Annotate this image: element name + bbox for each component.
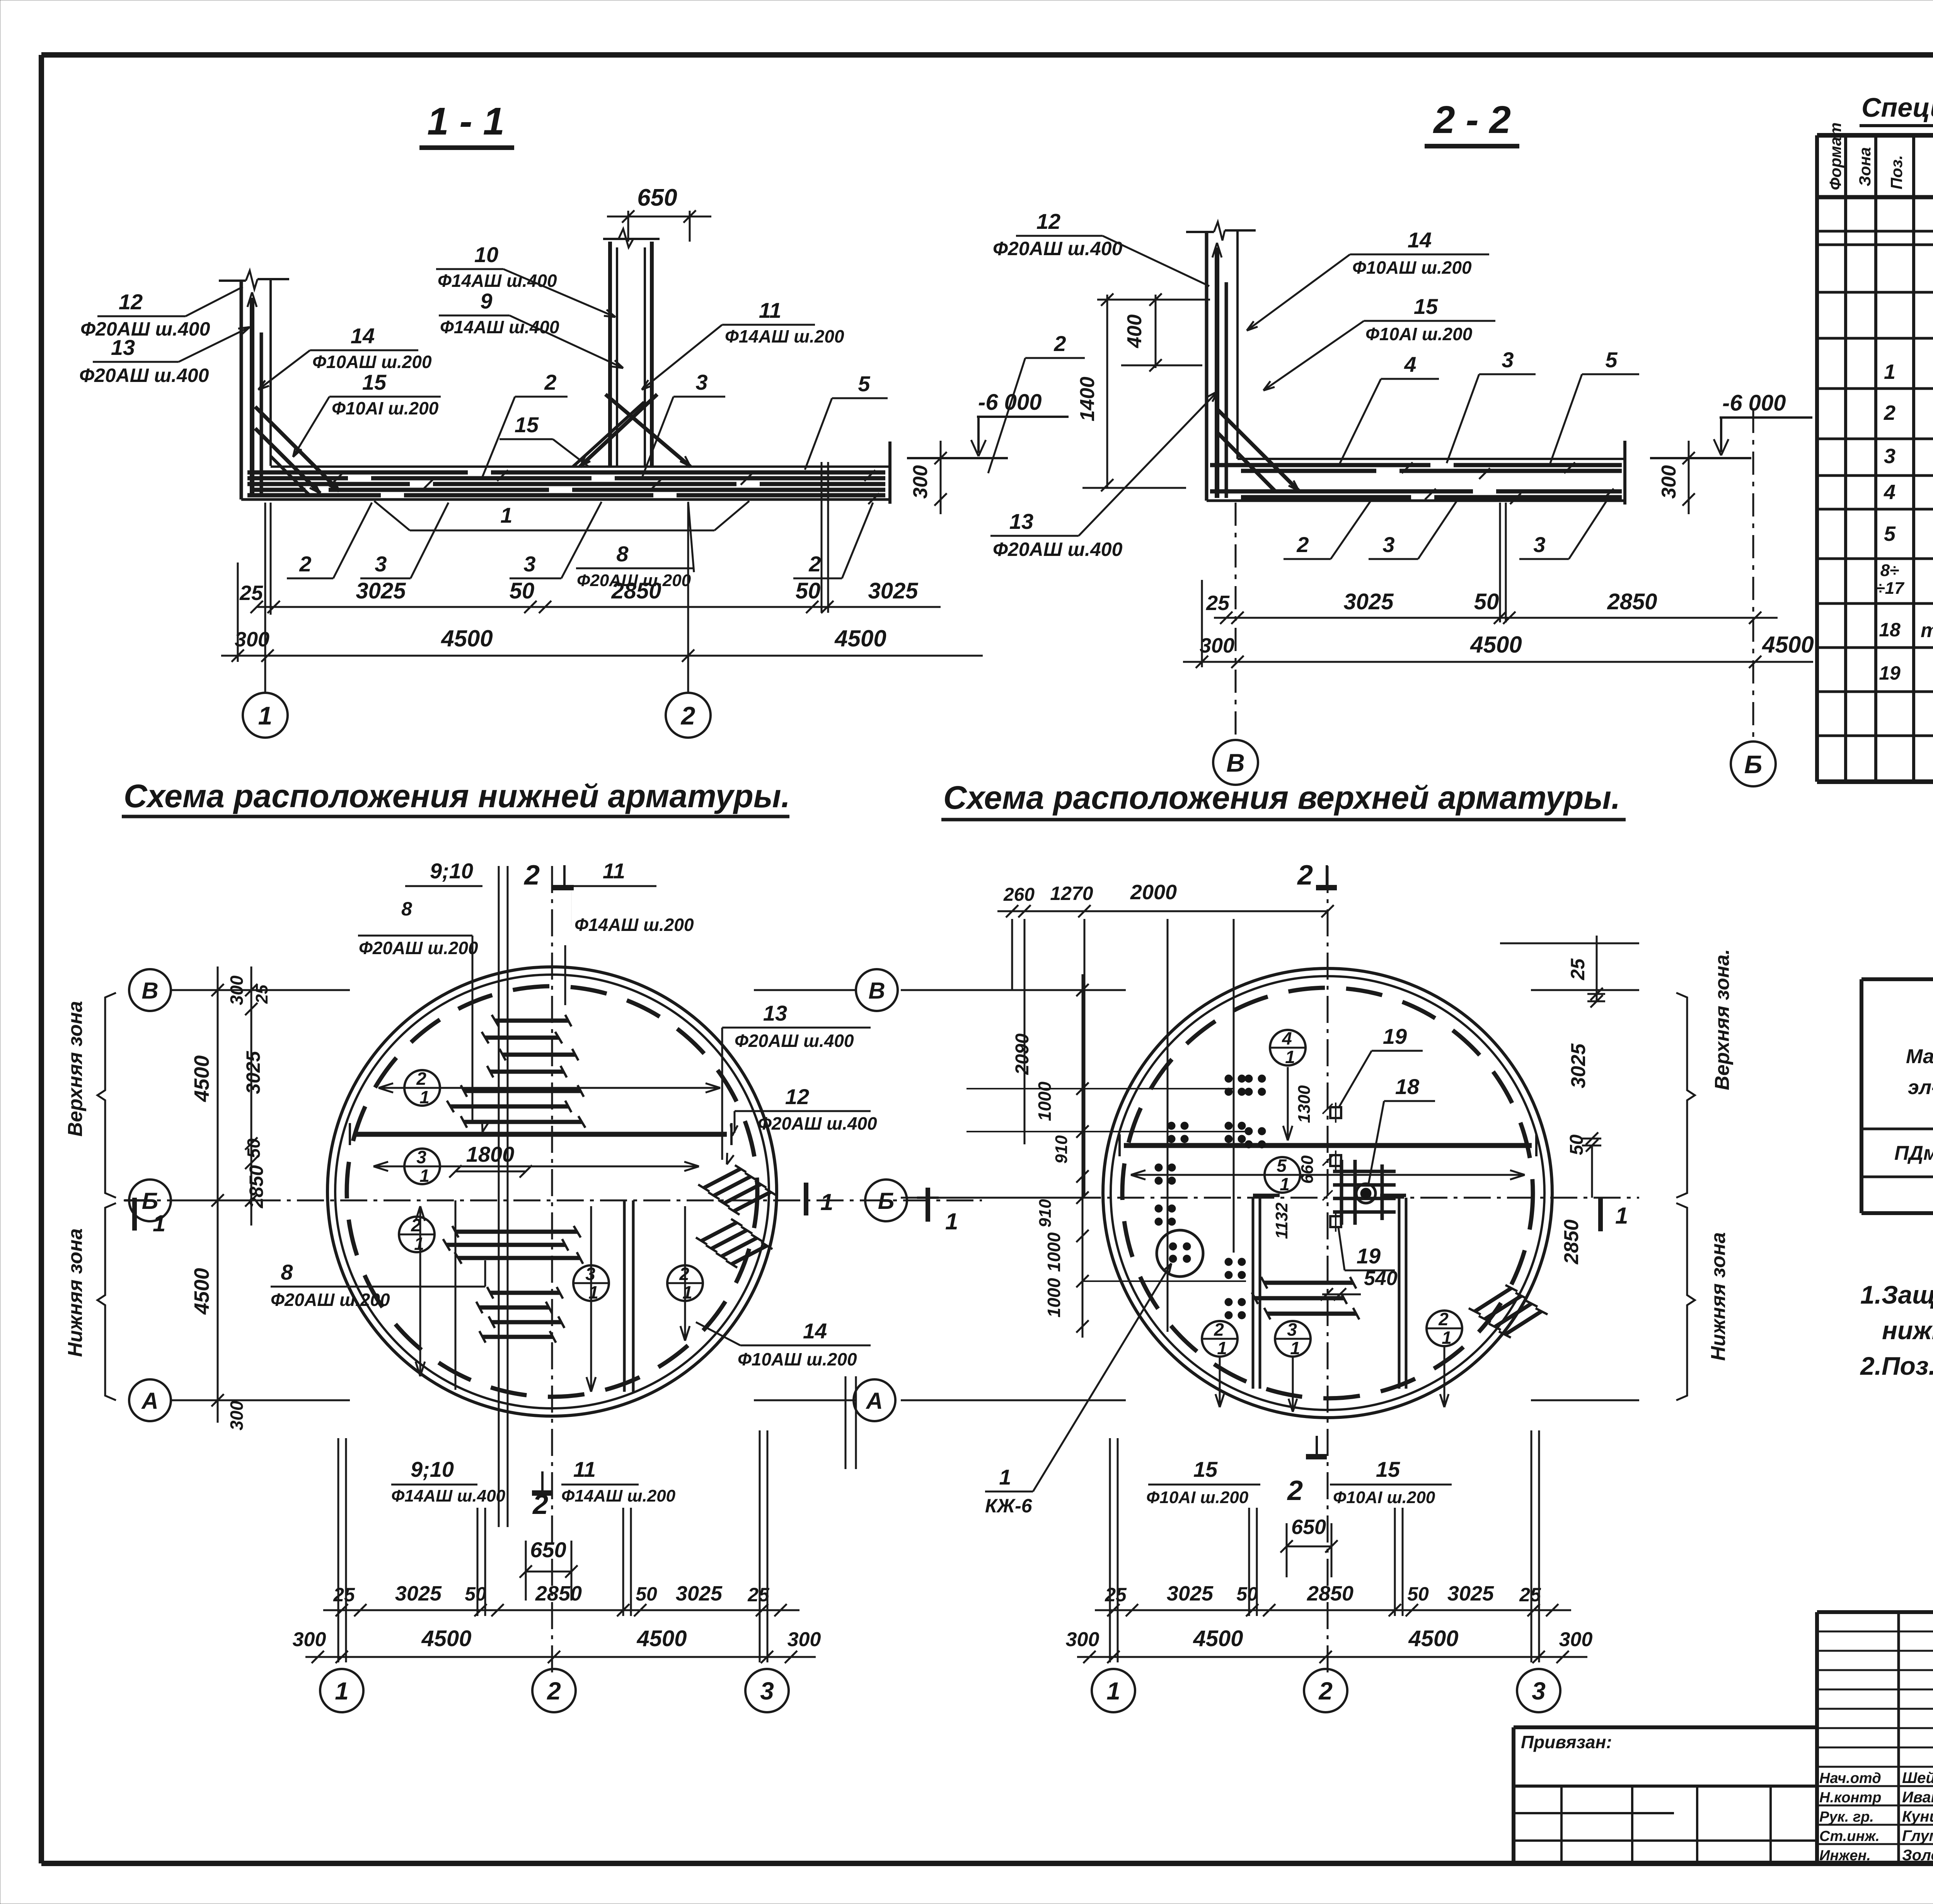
section 2-2 drawing <box>1186 222 1625 505</box>
svg-text:Ф10АШ ш.200: Ф10АШ ш.200 <box>738 1349 857 1369</box>
section 1-1 right 300 dim <box>909 441 947 514</box>
section 1-1 axis bubble 2 <box>666 693 711 738</box>
svg-text:4: 4 <box>1404 352 1416 377</box>
svg-text:2.Поз. „18” только для мокр: 2.Поз. „18” только для мокрых грунтов. <box>1860 1352 1933 1380</box>
svg-text:25: 25 <box>252 985 271 1004</box>
svg-text:50: 50 <box>1474 589 1499 614</box>
svg-text:8: 8 <box>616 542 629 566</box>
svg-text:2850: 2850 <box>1607 589 1657 614</box>
right plan left dim chain 2090 1000 910 <box>906 974 1249 1338</box>
svg-text:300: 300 <box>1658 465 1680 499</box>
svg-text:Ф10АШ ш.200: Ф10АШ ш.200 <box>1352 257 1472 278</box>
svg-text:13: 13 <box>763 1001 787 1025</box>
section 2-2 dim 400 1400 <box>1076 293 1210 491</box>
svg-text:50: 50 <box>465 1583 486 1605</box>
svg-text:400: 400 <box>1123 314 1146 348</box>
svg-text:300: 300 <box>909 465 932 499</box>
svg-text:300: 300 <box>788 1628 821 1651</box>
svg-text:Верхняя зона: Верхняя зона <box>64 1001 87 1137</box>
svg-text:4500: 4500 <box>636 1626 687 1651</box>
left plan bottom labels <box>391 1457 676 1520</box>
right plan zone braces right <box>1676 949 1734 1400</box>
svg-text:Ф20АШ ш.200: Ф20АШ ш.200 <box>271 1290 390 1310</box>
svg-text:Нижняя зона: Нижняя зона <box>64 1228 87 1357</box>
svg-text:2: 2 <box>1053 331 1066 356</box>
svg-text:15: 15 <box>1193 1457 1218 1481</box>
right plan embedded item 18 detail <box>1333 1160 1396 1225</box>
svg-text:Схема расположения верхней арм: Схема расположения верхней арматуры. <box>943 779 1620 816</box>
svg-text:12: 12 <box>1036 209 1060 234</box>
svg-text:Формат: Формат <box>1826 123 1844 190</box>
section 2-2 axis lines and bubbles <box>1202 410 1753 741</box>
specification table title <box>1860 92 1933 126</box>
left plan axis bubbles 1 2 3 <box>320 1669 363 1712</box>
section 1-1 mid labels 2 15 3 5 2 <box>482 331 1085 479</box>
right plan axis bubbles 1 2 3 <box>1092 1669 1135 1712</box>
svg-text:Ф10АШ ш.200: Ф10АШ ш.200 <box>312 352 432 372</box>
svg-text:3: 3 <box>1533 532 1545 557</box>
svg-text:12: 12 <box>785 1084 809 1109</box>
svg-text:3: 3 <box>375 552 387 576</box>
section 1-1 labels 10 9 11 <box>436 242 844 390</box>
svg-text:300: 300 <box>1200 634 1234 657</box>
svg-text:1: 1 <box>945 1209 958 1234</box>
section 2-2 dimension chain 25 3025 50 2850 <box>1206 589 1778 624</box>
svg-text:4500: 4500 <box>1470 632 1522 658</box>
svg-text:8÷: 8÷ <box>1880 561 1899 580</box>
svg-text:2850: 2850 <box>1307 1582 1353 1605</box>
section 2-2 heading <box>1425 98 1519 146</box>
svg-text:3025: 3025 <box>356 578 406 603</box>
svg-text:4500: 4500 <box>421 1626 471 1651</box>
left plan section-1 cut marks <box>124 1183 833 1236</box>
svg-text:Ф20АШ ш.400: Ф20АШ ш.400 <box>79 365 209 386</box>
left plan bar 12 horizontal <box>350 1123 731 1145</box>
svg-text:Инжен.: Инжен. <box>1819 1848 1871 1864</box>
svg-text:9;10: 9;10 <box>411 1457 454 1481</box>
section 1-1 heading <box>419 100 514 148</box>
section 2-2 labels 14 15 4 3 5 <box>1247 228 1639 464</box>
right plan bottom labels 15 2 15 650 <box>1146 1457 1452 1577</box>
section 2-2 labels 12 13 <box>990 209 1218 560</box>
svg-text:650: 650 <box>637 184 677 211</box>
svg-text:540: 540 <box>1364 1267 1398 1290</box>
svg-text:3: 3 <box>1532 1677 1546 1705</box>
svg-text:1: 1 <box>419 1087 430 1107</box>
svg-text:19: 19 <box>1879 662 1901 684</box>
svg-text:11: 11 <box>603 859 625 883</box>
svg-text:11: 11 <box>573 1457 596 1481</box>
svg-text:1: 1 <box>588 1282 598 1302</box>
svg-text:Рук. гр.: Рук. гр. <box>1819 1809 1874 1825</box>
section 2-2 bottom labels 2 3 3 <box>1284 499 1607 559</box>
section 1-1 drawing <box>219 184 1008 504</box>
svg-text:Зона: Зона <box>1856 147 1874 186</box>
svg-text:25: 25 <box>747 1584 770 1606</box>
svg-text:12: 12 <box>119 290 143 314</box>
svg-text:3025: 3025 <box>868 578 918 603</box>
svg-text:14: 14 <box>351 324 375 348</box>
right plan right dim chain 25 3025 50 2850 <box>1500 936 1639 1265</box>
svg-text:3: 3 <box>1287 1319 1297 1340</box>
svg-text:25: 25 <box>1206 591 1230 615</box>
svg-text:18: 18 <box>1879 619 1901 641</box>
svg-text:4500: 4500 <box>190 1268 213 1315</box>
svg-text:1300: 1300 <box>1295 1085 1314 1123</box>
svg-text:4500: 4500 <box>1762 632 1814 658</box>
section 1-1 labels 14 15 <box>258 324 441 457</box>
svg-text:13: 13 <box>1009 509 1033 534</box>
svg-text:2: 2 <box>1297 860 1313 891</box>
svg-text:650: 650 <box>530 1538 566 1562</box>
svg-text:25: 25 <box>1105 1584 1127 1606</box>
svg-text:3: 3 <box>1502 348 1514 372</box>
svg-text:1: 1 <box>153 1210 165 1236</box>
right plan title <box>941 779 1626 820</box>
svg-text:Ф20АШ ш.400: Ф20АШ ш.400 <box>993 539 1123 560</box>
svg-text:3: 3 <box>760 1677 774 1705</box>
svg-text:Ф10АI ш.200: Ф10АI ш.200 <box>1365 324 1473 344</box>
svg-text:2850: 2850 <box>535 1582 582 1605</box>
svg-text:50: 50 <box>510 578 535 603</box>
svg-text:3025: 3025 <box>242 1051 264 1094</box>
svg-text:3: 3 <box>1382 532 1394 557</box>
left plan title <box>122 778 790 816</box>
svg-text:300: 300 <box>227 975 247 1005</box>
svg-text:1: 1 <box>1884 360 1895 384</box>
left plan bar group below center <box>443 1226 583 1264</box>
svg-text:2: 2 <box>1214 1319 1224 1340</box>
svg-text:Ф20АШ ш.400: Ф20АШ ш.400 <box>993 238 1123 259</box>
svg-text:2: 2 <box>1438 1309 1449 1329</box>
svg-text:3: 3 <box>523 552 535 576</box>
section 1-1 dimension chain 300 4500 4500 <box>221 626 983 662</box>
right plan rebar section dot clusters <box>1155 1075 1266 1319</box>
svg-text:Ф20АШ ш.200: Ф20АШ ш.200 <box>359 938 478 958</box>
svg-text:Схема расположения нижней арма: Схема расположения нижней арматуры. <box>124 778 790 814</box>
svg-text:2: 2 <box>808 552 821 576</box>
section 1-1 bottom labels 2 3 3 8 2 <box>287 502 873 590</box>
right plan right diagonal bars <box>1469 1285 1548 1338</box>
svg-text:2850: 2850 <box>245 1165 267 1209</box>
svg-text:В: В <box>141 978 158 1004</box>
svg-text:25: 25 <box>1519 1584 1541 1606</box>
right plan span arrow line <box>1131 1067 1525 1412</box>
svg-text:2: 2 <box>1296 532 1309 557</box>
svg-text:3: 3 <box>1884 445 1895 468</box>
svg-text:Ф14АШ ш.400: Ф14АШ ш.400 <box>440 317 559 337</box>
svg-text:Глуменко: Глуменко <box>1902 1827 1933 1844</box>
svg-text:В: В <box>1226 748 1245 777</box>
svg-text:Ф20АШ ш.400: Ф20АШ ш.400 <box>80 318 210 340</box>
left plan axis lines <box>124 866 982 1674</box>
left plan fraction bubbles <box>404 1070 440 1106</box>
svg-text:Ф20АШ ш.400: Ф20АШ ш.400 <box>735 1031 854 1051</box>
svg-text:15: 15 <box>515 413 539 437</box>
svg-text:1 - 1: 1 - 1 <box>427 100 505 143</box>
svg-text:18: 18 <box>1395 1074 1420 1099</box>
svg-text:2: 2 <box>680 701 695 730</box>
svg-text:1: 1 <box>414 1234 424 1254</box>
svg-text:Марка: Марка <box>1906 1045 1933 1068</box>
svg-text:4500: 4500 <box>1193 1626 1243 1651</box>
svg-text:1: 1 <box>1280 1174 1290 1194</box>
svg-text:1: 1 <box>258 701 273 730</box>
svg-text:2: 2 <box>1318 1677 1333 1705</box>
svg-text:А: А <box>865 1388 883 1414</box>
svg-text:Б: Б <box>1744 750 1763 779</box>
section 2-2 right 300 dim <box>1658 441 1695 514</box>
svg-text:1270: 1270 <box>1050 883 1093 904</box>
svg-text:1000: 1000 <box>1044 1278 1064 1318</box>
specification table header texts <box>1826 123 1933 190</box>
svg-text:1: 1 <box>1442 1328 1452 1348</box>
svg-text:1: 1 <box>500 503 512 527</box>
right plan section-1 cut marks <box>917 1188 1628 1234</box>
svg-text:4: 4 <box>1282 1028 1292 1048</box>
svg-text:50: 50 <box>1407 1583 1429 1605</box>
svg-text:14: 14 <box>1408 228 1432 252</box>
svg-text:1: 1 <box>335 1677 349 1705</box>
svg-text:Ф14АШ ш.400: Ф14АШ ш.400 <box>391 1486 506 1505</box>
right plan KZh-6 detail circle pos1 <box>1157 1230 1203 1277</box>
svg-text:9;10: 9;10 <box>430 859 473 883</box>
section 1-1 left labels 12 13 <box>79 287 250 386</box>
svg-text:2: 2 <box>1287 1475 1303 1506</box>
svg-text:Нижняя зона: Нижняя зона <box>1707 1232 1730 1361</box>
svg-text:Ф10АI ш.200: Ф10АI ш.200 <box>1333 1488 1435 1507</box>
left plan span arrows <box>373 1083 720 1392</box>
svg-text:50: 50 <box>244 1138 264 1158</box>
svg-text:Кунцевич: Кунцевич <box>1902 1808 1933 1825</box>
svg-text:2: 2 <box>411 1215 421 1235</box>
svg-text:2850: 2850 <box>611 578 661 603</box>
right plan labels 19 18 19 540 <box>1272 1024 1435 1301</box>
right plan central bar group with hooks <box>1252 1277 1359 1319</box>
svg-text:КЖ-6: КЖ-6 <box>985 1495 1033 1517</box>
svg-text:910: 910 <box>1052 1135 1071 1164</box>
left plan bar group below 2-1 <box>447 1085 585 1128</box>
svg-text:3025: 3025 <box>1343 589 1394 614</box>
svg-text:2: 2 <box>416 1069 426 1089</box>
svg-text:13: 13 <box>111 335 135 360</box>
svg-text:Привязан:: Привязан: <box>1521 1732 1612 1752</box>
svg-text:1: 1 <box>1106 1677 1120 1705</box>
svg-text:1: 1 <box>682 1282 692 1302</box>
right plan tank walls <box>1103 968 1552 1418</box>
svg-text:1: 1 <box>999 1465 1011 1489</box>
svg-text:Н.контр: Н.контр <box>1819 1790 1881 1806</box>
svg-text:4500: 4500 <box>441 626 493 651</box>
svg-text:25: 25 <box>239 581 263 605</box>
section 2-2 elevation -6000 <box>1650 390 1812 458</box>
svg-text:11: 11 <box>759 298 781 322</box>
svg-text:2: 2 <box>299 552 311 576</box>
svg-text:19: 19 <box>1383 1024 1407 1048</box>
svg-text:1000: 1000 <box>1044 1232 1064 1272</box>
svg-text:15: 15 <box>362 370 387 394</box>
svg-text:2850: 2850 <box>1560 1219 1583 1265</box>
svg-text:А: А <box>141 1388 158 1414</box>
svg-text:Ф14АШ ш.200: Ф14АШ ш.200 <box>561 1486 676 1505</box>
svg-text:300: 300 <box>227 1401 247 1430</box>
svg-text:Ф20АШ ш.400: Ф20АШ ш.400 <box>758 1113 877 1134</box>
section 1-1 dimension chain 25 3025 50 2850 50 3025 <box>239 578 941 613</box>
right plan pos19 small squares <box>1330 1103 1341 1232</box>
right plan bottom dim chains <box>1066 1430 1593 1663</box>
right plan fraction bubbles <box>1270 1030 1306 1065</box>
svg-text:-6 000: -6 000 <box>978 390 1042 415</box>
svg-text:Ф14АШ ш.400: Ф14АШ ш.400 <box>438 271 557 291</box>
svg-text:3025: 3025 <box>1567 1043 1590 1088</box>
left plan row bubbles <box>129 969 171 1011</box>
svg-text:260: 260 <box>1003 885 1035 905</box>
svg-text:4500: 4500 <box>190 1055 213 1102</box>
section 2-2 dimension chain 300 4500 4500 <box>1183 632 1814 668</box>
specification table grid <box>1817 135 1933 782</box>
section 1-1 elevation -6000 <box>971 390 1069 456</box>
svg-text:1000: 1000 <box>1035 1081 1055 1121</box>
rebar products table <box>1861 979 1933 1213</box>
left plan tank walls <box>327 967 777 1416</box>
svg-text:15: 15 <box>1414 294 1438 319</box>
svg-text:2 - 2: 2 - 2 <box>1433 98 1511 141</box>
svg-text:2: 2 <box>1884 401 1895 424</box>
svg-text:300: 300 <box>293 1628 326 1651</box>
svg-text:Ф10АI ш.200: Ф10АI ш.200 <box>332 398 439 418</box>
svg-text:Ст.инж.: Ст.инж. <box>1819 1828 1880 1844</box>
svg-text:50: 50 <box>636 1583 657 1605</box>
svg-text:4500: 4500 <box>1408 1626 1458 1651</box>
svg-text:1.Защитный слой бетона для: 1.Защитный слой бетона для рабочей армат… <box>1860 1280 1933 1309</box>
title block privyazan box <box>1514 1727 1817 1863</box>
svg-text:5: 5 <box>858 372 870 396</box>
svg-text:25: 25 <box>333 1584 355 1606</box>
svg-text:Ф10АI ш.200: Ф10АI ш.200 <box>1146 1488 1249 1507</box>
right plan axis lines <box>901 866 1639 1674</box>
left plan left dim chains <box>170 966 271 1430</box>
svg-text:50: 50 <box>1236 1583 1258 1605</box>
svg-text:910: 910 <box>1036 1199 1055 1227</box>
svg-text:10: 10 <box>474 242 498 267</box>
svg-text:5: 5 <box>1277 1156 1287 1176</box>
left plan bottom dim chains <box>293 1430 821 1663</box>
svg-text:1: 1 <box>820 1189 833 1215</box>
svg-text:÷17: ÷17 <box>1875 579 1905 598</box>
right plan label 1 KZh-6 <box>985 1263 1171 1517</box>
left plan 1800 dim <box>449 1142 532 1178</box>
svg-text:эл- та: эл- та <box>1908 1076 1933 1099</box>
svg-text:нижней - 30мм; верхней - 25мм: нижней - 30мм; верхней - 25мм. <box>1882 1316 1933 1345</box>
right plan bar pos4 horizontal <box>1120 1134 1536 1156</box>
svg-text:1: 1 <box>1615 1203 1628 1229</box>
svg-text:Ф14АШ ш.200: Ф14АШ ш.200 <box>725 326 844 346</box>
svg-text:т.п. 902-1-59 Альбом II: т.п. 902-1-59 Альбом II <box>1921 619 1933 642</box>
left plan labels around circle <box>271 859 877 1369</box>
svg-text:4500: 4500 <box>834 626 886 651</box>
svg-text:Спецификация элементов монол: Спецификация элементов монолитной констр… <box>1861 92 1933 123</box>
svg-text:3: 3 <box>695 370 707 394</box>
svg-text:1: 1 <box>419 1166 430 1186</box>
svg-text:5: 5 <box>1884 522 1896 545</box>
svg-text:2: 2 <box>547 1677 561 1705</box>
svg-text:Шейко: Шейко <box>1902 1769 1933 1786</box>
svg-text:5: 5 <box>1605 348 1618 372</box>
svg-text:4: 4 <box>1884 481 1895 504</box>
notes text <box>1860 1280 1933 1380</box>
left plan top bar group pos11 <box>482 1015 578 1077</box>
svg-text:2090: 2090 <box>1012 1033 1033 1075</box>
svg-text:3025: 3025 <box>1447 1582 1494 1605</box>
right plan 2 cut marks <box>1287 860 1337 1506</box>
svg-text:650: 650 <box>1291 1515 1326 1539</box>
svg-text:2: 2 <box>544 370 556 394</box>
svg-text:Золотарев: Золотарев <box>1902 1847 1933 1864</box>
svg-text:300: 300 <box>1066 1628 1099 1651</box>
svg-text:Б: Б <box>878 1188 894 1214</box>
svg-text:3025: 3025 <box>676 1582 723 1605</box>
svg-text:2000: 2000 <box>1130 881 1177 904</box>
svg-text:25: 25 <box>1567 958 1589 980</box>
svg-text:14: 14 <box>803 1319 827 1343</box>
svg-text:В: В <box>868 978 885 1004</box>
svg-text:3025: 3025 <box>395 1582 442 1605</box>
svg-text:2: 2 <box>679 1264 689 1284</box>
svg-text:50: 50 <box>796 578 821 603</box>
left plan right diagonal bars pos13 <box>696 1165 776 1268</box>
right plan top dim chain 260 1270 2000 <box>997 881 1334 1197</box>
svg-text:Иванов: Иванов <box>1902 1789 1933 1806</box>
svg-text:1: 1 <box>1217 1338 1227 1358</box>
svg-text:1: 1 <box>1285 1047 1295 1067</box>
svg-text:1132: 1132 <box>1272 1202 1291 1239</box>
svg-text:2: 2 <box>523 860 540 891</box>
left plan zone braces <box>64 993 116 1400</box>
svg-text:15: 15 <box>1376 1457 1400 1481</box>
svg-text:Ф14АШ ш.200: Ф14АШ ш.200 <box>574 915 694 935</box>
svg-text:ПДм -1: ПДм -1 <box>1894 1142 1933 1164</box>
section 1-1 axis extension lines <box>238 462 828 692</box>
svg-text:Верхняя зона.: Верхняя зона. <box>1711 949 1734 1090</box>
svg-text:8: 8 <box>281 1260 293 1284</box>
specification table rows content <box>1875 258 1933 774</box>
svg-text:1800: 1800 <box>466 1142 515 1166</box>
left plan lower bar group <box>476 1287 564 1343</box>
svg-text:3: 3 <box>416 1147 426 1167</box>
svg-text:Поз.: Поз. <box>1887 155 1906 189</box>
svg-text:8: 8 <box>401 898 412 920</box>
left plan extension pair below label 14 <box>845 1376 856 1469</box>
svg-text:Нач.отд: Нач.отд <box>1819 1770 1881 1786</box>
svg-text:3025: 3025 <box>1167 1582 1214 1605</box>
svg-text:3: 3 <box>585 1264 595 1284</box>
section 1-1 axis bubble 1 <box>243 693 288 738</box>
svg-text:9: 9 <box>480 289 492 313</box>
title block left grid <box>1817 1612 1933 1864</box>
section 1-1 label 1 below slab <box>374 501 749 530</box>
svg-text:1400: 1400 <box>1076 377 1099 421</box>
svg-text:1: 1 <box>1290 1338 1300 1358</box>
svg-text:300: 300 <box>1559 1628 1593 1651</box>
svg-text:19: 19 <box>1357 1244 1381 1268</box>
